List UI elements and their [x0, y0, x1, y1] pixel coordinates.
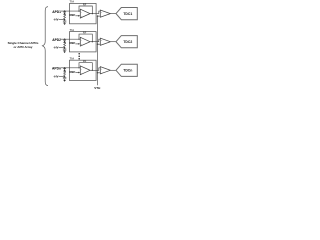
junction dot fb-input ch1	[78, 11, 79, 12]
tag TDC1	[116, 8, 137, 20]
wire -HV ch1	[59, 19, 65, 21]
wire threshold stub ch2	[98, 43, 101, 45]
svg-text:APD2: APD2	[52, 38, 61, 42]
capacitor C1	[63, 20, 66, 24]
wire threshold stub ch1	[98, 15, 101, 17]
brace	[42, 7, 48, 86]
junction dot fb-input ch2	[78, 39, 79, 40]
junction dot threshold ch2	[97, 44, 98, 45]
wire comparator2 output	[111, 41, 117, 43]
junction dot APDn	[64, 67, 65, 68]
ground ch2	[63, 51, 66, 53]
op-amp An	[80, 66, 90, 75]
svg-text:or APD Array: or APD Array	[14, 45, 33, 49]
threshold bus VTH	[97, 16, 99, 85]
TIA box U1	[70, 4, 97, 24]
wire comparator1 output	[111, 13, 117, 15]
resistor Rn (quench)	[64, 72, 66, 77]
wire TIA2 output	[90, 39, 100, 42]
wire -HV chn	[59, 75, 65, 77]
wire TIA1 output	[90, 11, 100, 14]
node -HV chn	[64, 76, 65, 77]
arrowhead REF	[78, 43, 80, 45]
svg-text:APD1: APD1	[52, 10, 61, 14]
svg-text:TIA: TIA	[70, 0, 75, 4]
tag TDC2	[116, 36, 137, 48]
svg-text:TDC1: TDC1	[123, 12, 132, 16]
svg-text:TDC2: TDC2	[123, 40, 132, 44]
node -HV ch1	[64, 19, 65, 20]
wire -HV ch2	[59, 47, 65, 49]
arrowhead REF	[78, 72, 80, 74]
wire threshold stub chn	[98, 72, 101, 74]
svg-text:VTH: VTH	[94, 86, 100, 90]
comparator K2	[100, 38, 110, 45]
svg-text:REF: REF	[70, 70, 76, 74]
comparator K1	[100, 10, 110, 17]
arrowhead REF	[78, 15, 80, 17]
svg-text:REF: REF	[70, 41, 76, 45]
junction dot APD1	[64, 10, 65, 11]
wire REF to op-amp + input	[75, 72, 78, 74]
wire APD1 to TIA minus input	[61, 10, 80, 12]
capacitor Cn	[63, 76, 66, 80]
capacitor C2	[63, 48, 66, 52]
svg-text:REF: REF	[70, 13, 76, 17]
node -HV ch2	[64, 47, 65, 48]
svg-text:-HV: -HV	[53, 74, 58, 78]
svg-text:TDCn: TDCn	[123, 69, 132, 73]
feedback wire ch2	[79, 34, 92, 42]
junction dot output chn	[92, 70, 93, 71]
wire comparatorn output	[111, 69, 117, 71]
svg-text:-HV: -HV	[53, 18, 58, 22]
svg-text:-HV: -HV	[53, 46, 58, 50]
ground chn	[63, 80, 66, 82]
feedback wire chn	[79, 63, 92, 71]
comparator Kn	[100, 67, 110, 74]
TIA box U2	[70, 32, 97, 52]
junction dot fb-input chn	[78, 67, 79, 68]
wire APD2 to TIA minus input	[61, 38, 80, 40]
wire REF to op-amp + input	[75, 43, 78, 45]
op-amp A1	[80, 9, 90, 18]
ground ch1	[63, 23, 66, 25]
junction dot threshold ch1	[97, 15, 98, 16]
tag TDCn	[116, 64, 137, 76]
resistor R2 (quench)	[64, 43, 66, 48]
junction dot APD2	[64, 39, 65, 40]
op-amp A2	[80, 37, 90, 46]
junction dot output ch2	[92, 41, 93, 42]
resistor R1 (quench)	[64, 15, 66, 20]
wire APDn to TIA minus input	[61, 67, 80, 69]
feedback wire ch1	[79, 6, 92, 14]
photodiode APDn	[63, 68, 66, 70]
junction dot threshold chn	[97, 72, 98, 73]
photodiode APD2	[63, 39, 66, 41]
junction dot output ch1	[92, 13, 93, 14]
ellipsis more channels	[78, 53, 80, 60]
wire TIAn output	[90, 68, 100, 71]
caption: Single-Channel APDs or APD Array	[8, 41, 39, 49]
TIA box Un	[70, 60, 97, 80]
wire REF to op-amp + input	[75, 15, 78, 17]
photodiode APD1	[63, 11, 66, 13]
svg-text:APDn: APDn	[52, 67, 61, 71]
